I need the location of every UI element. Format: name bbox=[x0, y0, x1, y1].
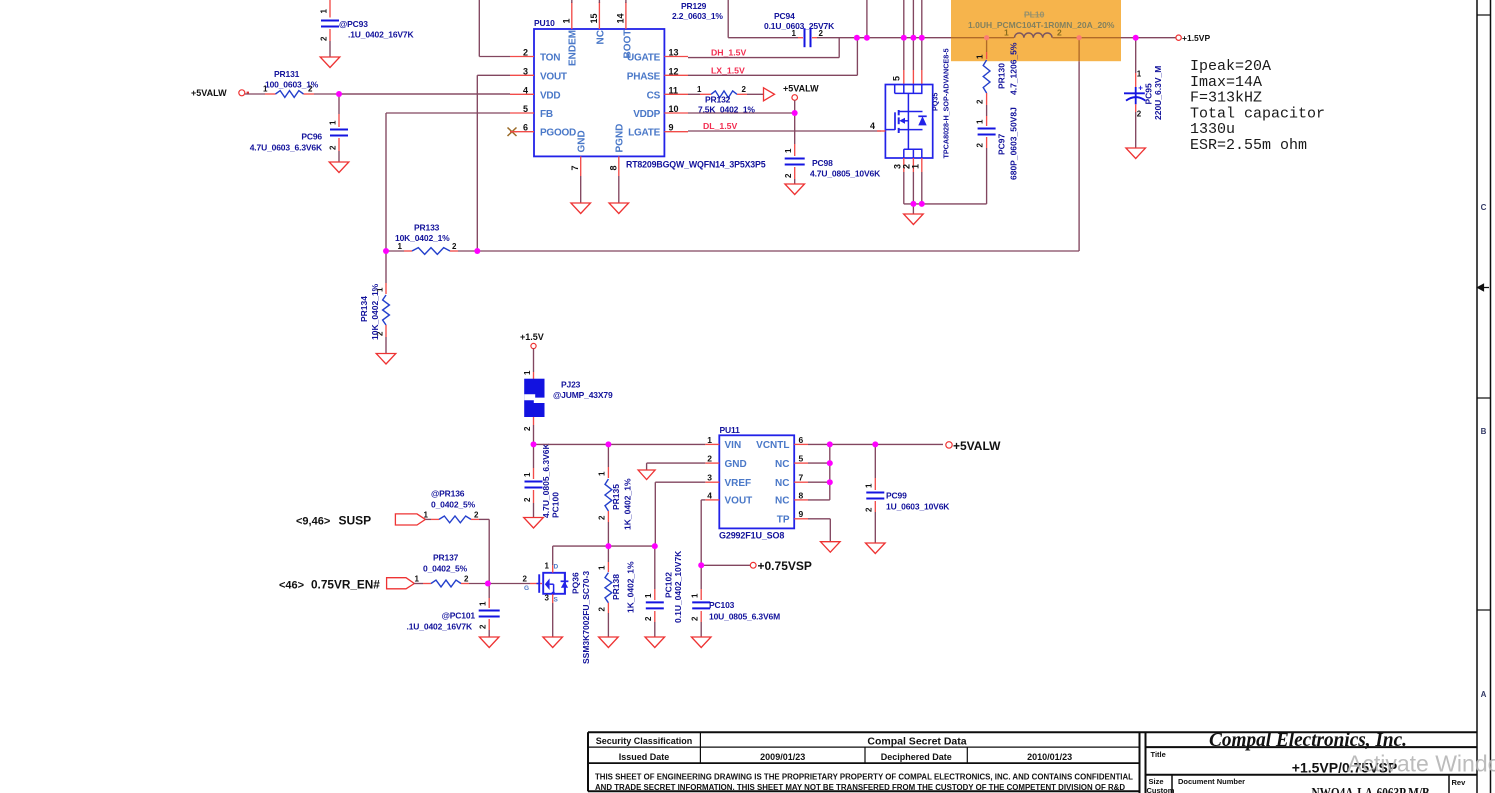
svg-text:2: 2 bbox=[452, 242, 457, 251]
svg-text:PR129: PR129 bbox=[681, 1, 707, 11]
svg-text:PC96: PC96 bbox=[301, 132, 322, 142]
svg-text:GND: GND bbox=[725, 459, 747, 470]
svg-text:1: 1 bbox=[561, 18, 571, 23]
svg-text:PR134: PR134 bbox=[359, 296, 369, 322]
svg-text:2010/01/23: 2010/01/23 bbox=[1027, 752, 1072, 762]
svg-text:0.1U_0603_25V7K: 0.1U_0603_25V7K bbox=[764, 21, 835, 31]
svg-text:DH_1.5V: DH_1.5V bbox=[711, 48, 746, 58]
svg-text:TPCA8028-H_SOP-ADVANCE8-5: TPCA8028-H_SOP-ADVANCE8-5 bbox=[942, 48, 951, 158]
svg-text:2: 2 bbox=[598, 607, 607, 612]
svg-text:THIS SHEET OF ENGINEERING DRAW: THIS SHEET OF ENGINEERING DRAWING IS THE… bbox=[595, 772, 1133, 781]
svg-text:0_0402_5%: 0_0402_5% bbox=[423, 564, 468, 574]
svg-text:+5VALW: +5VALW bbox=[191, 88, 227, 98]
svg-text:VREF: VREF bbox=[725, 478, 752, 489]
svg-text:680P_0603_50V8J: 680P_0603_50V8J bbox=[1009, 107, 1019, 180]
svg-text:4: 4 bbox=[870, 121, 875, 131]
svg-text:+5VALW: +5VALW bbox=[953, 439, 1001, 453]
svg-text:2: 2 bbox=[474, 511, 479, 520]
svg-text:NC: NC bbox=[775, 459, 789, 470]
svg-text:Deciphered Date: Deciphered Date bbox=[881, 752, 952, 762]
svg-text:VDD: VDD bbox=[540, 90, 560, 101]
svg-text:2: 2 bbox=[976, 143, 985, 148]
svg-text:LGATE: LGATE bbox=[628, 128, 660, 139]
svg-text:PR138: PR138 bbox=[611, 574, 621, 600]
svg-text:7: 7 bbox=[570, 165, 580, 170]
svg-text:1: 1 bbox=[644, 593, 653, 598]
svg-text:G: G bbox=[524, 585, 529, 592]
svg-text:1: 1 bbox=[1004, 28, 1009, 38]
svg-text:1: 1 bbox=[784, 148, 793, 153]
svg-text:Security Classification: Security Classification bbox=[596, 736, 693, 746]
svg-text:1: 1 bbox=[598, 471, 607, 476]
svg-text:DL_1.5V: DL_1.5V bbox=[703, 121, 737, 131]
svg-text:LX_1.5V: LX_1.5V bbox=[711, 65, 745, 75]
svg-text:7: 7 bbox=[799, 473, 804, 483]
svg-text:2: 2 bbox=[320, 36, 329, 41]
svg-text:10: 10 bbox=[669, 104, 679, 114]
svg-text:PC103: PC103 bbox=[709, 600, 735, 610]
svg-text:RT8209BGQW_WQFN14_3P5X3P5: RT8209BGQW_WQFN14_3P5X3P5 bbox=[626, 160, 766, 170]
svg-text:Compal Secret Data: Compal Secret Data bbox=[867, 735, 966, 747]
svg-text:PGND: PGND bbox=[615, 124, 626, 153]
svg-text:1: 1 bbox=[976, 119, 985, 124]
svg-text:.1U_0402_16V7K: .1U_0402_16V7K bbox=[348, 30, 414, 40]
svg-text:14: 14 bbox=[615, 13, 625, 23]
svg-text:+1.5V: +1.5V bbox=[520, 332, 544, 342]
svg-text:PC99: PC99 bbox=[886, 491, 907, 501]
svg-text:C: C bbox=[1481, 203, 1487, 212]
svg-text:1: 1 bbox=[320, 9, 329, 14]
svg-text:PR137: PR137 bbox=[433, 553, 459, 563]
svg-text:8: 8 bbox=[799, 490, 804, 500]
svg-text:PQ35: PQ35 bbox=[931, 93, 940, 111]
svg-text:2: 2 bbox=[976, 99, 985, 104]
svg-text:PQ36: PQ36 bbox=[571, 572, 581, 594]
svg-text:PC100: PC100 bbox=[551, 492, 561, 518]
svg-text:Total capacitor: Total capacitor bbox=[1190, 105, 1325, 122]
svg-text:1: 1 bbox=[523, 370, 532, 375]
svg-text:6: 6 bbox=[523, 123, 528, 133]
svg-text:B: B bbox=[1481, 427, 1487, 436]
svg-text:NC: NC bbox=[775, 496, 789, 507]
svg-text:PU10: PU10 bbox=[534, 18, 555, 28]
svg-text:1: 1 bbox=[523, 472, 532, 477]
svg-text:1: 1 bbox=[424, 511, 429, 520]
svg-text:2009/01/23: 2009/01/23 bbox=[760, 752, 805, 762]
svg-text:VCNTL: VCNTL bbox=[756, 440, 789, 451]
svg-text:1: 1 bbox=[329, 120, 338, 125]
svg-text:1: 1 bbox=[792, 29, 797, 38]
svg-text:@JUMP_43X79: @JUMP_43X79 bbox=[553, 390, 613, 400]
svg-text:4.7U_0805_6.3V6K: 4.7U_0805_6.3V6K bbox=[541, 442, 551, 518]
svg-text:3: 3 bbox=[707, 473, 712, 483]
svg-text:PR132: PR132 bbox=[705, 95, 731, 105]
svg-text:SUSP: SUSP bbox=[339, 514, 372, 528]
svg-text:1U_0603_10V6K: 1U_0603_10V6K bbox=[886, 502, 950, 512]
svg-text:1: 1 bbox=[598, 565, 607, 570]
svg-text:PGOOD: PGOOD bbox=[540, 128, 576, 139]
svg-text:2: 2 bbox=[742, 85, 747, 94]
svg-text:12: 12 bbox=[669, 66, 679, 76]
svg-text:220U_6.3V_M: 220U_6.3V_M bbox=[1153, 66, 1163, 120]
svg-text:ENDEM: ENDEM bbox=[568, 30, 579, 66]
svg-text:+5VALW: +5VALW bbox=[783, 84, 819, 94]
svg-text:1K_0402_1%: 1K_0402_1% bbox=[626, 561, 636, 613]
svg-text:VIN: VIN bbox=[725, 440, 742, 451]
svg-text:5: 5 bbox=[523, 104, 528, 114]
svg-text:BOOT: BOOT bbox=[623, 30, 634, 59]
svg-text:4.7U_0805_10V6K: 4.7U_0805_10V6K bbox=[810, 169, 881, 179]
svg-text:Issued Date: Issued Date bbox=[619, 752, 670, 762]
svg-text:PC94: PC94 bbox=[774, 11, 795, 21]
svg-text:2: 2 bbox=[691, 616, 700, 621]
svg-text:5: 5 bbox=[892, 76, 902, 81]
svg-text:1: 1 bbox=[545, 562, 550, 571]
svg-text:PC102: PC102 bbox=[664, 572, 674, 598]
svg-text:Imax=14A: Imax=14A bbox=[1190, 74, 1262, 91]
svg-text:6: 6 bbox=[799, 435, 804, 445]
svg-text:VOUT: VOUT bbox=[540, 71, 567, 82]
svg-text:1330u: 1330u bbox=[1190, 121, 1235, 138]
svg-text:G2992F1U_SO8: G2992F1U_SO8 bbox=[719, 531, 784, 541]
svg-text:F=313kHZ: F=313kHZ bbox=[1190, 90, 1262, 107]
svg-text:1: 1 bbox=[911, 164, 921, 169]
svg-text:2: 2 bbox=[329, 145, 338, 150]
svg-text:<46>: <46> bbox=[279, 580, 304, 592]
svg-text:VDDP: VDDP bbox=[633, 109, 660, 120]
svg-text:1.0UH_PCMC104T-1R0MN_20A_20%: 1.0UH_PCMC104T-1R0MN_20A_20% bbox=[968, 20, 1115, 30]
svg-text:2: 2 bbox=[819, 29, 824, 38]
svg-text:2: 2 bbox=[1137, 110, 1142, 119]
svg-text:13: 13 bbox=[669, 48, 679, 58]
svg-text:9: 9 bbox=[799, 509, 804, 519]
svg-text:9: 9 bbox=[669, 123, 674, 133]
svg-text:VOUT: VOUT bbox=[725, 496, 753, 507]
svg-text:10K_0402_1%: 10K_0402_1% bbox=[370, 283, 380, 340]
svg-text:2: 2 bbox=[479, 624, 488, 629]
svg-text:TP: TP bbox=[777, 515, 790, 526]
svg-text:AND TRADE SECRET INFORMATION.: AND TRADE SECRET INFORMATION. THIS SHEET… bbox=[595, 783, 1125, 792]
svg-text:2: 2 bbox=[523, 575, 528, 584]
svg-text:Compal Electronics, Inc.: Compal Electronics, Inc. bbox=[1209, 729, 1407, 751]
svg-text:1: 1 bbox=[697, 85, 702, 94]
svg-text:2.2_0603_1%: 2.2_0603_1% bbox=[672, 11, 723, 21]
svg-text:2: 2 bbox=[598, 515, 607, 520]
svg-text:CS: CS bbox=[647, 90, 661, 101]
svg-text:10K_0402_1%: 10K_0402_1% bbox=[395, 233, 450, 243]
svg-text:2: 2 bbox=[865, 507, 874, 512]
svg-text:@PC93: @PC93 bbox=[339, 19, 368, 29]
svg-text:PL10: PL10 bbox=[1024, 10, 1045, 20]
svg-text:10U_0805_6.3V6M: 10U_0805_6.3V6M bbox=[709, 612, 780, 622]
svg-text:2: 2 bbox=[1057, 28, 1062, 38]
svg-text:PR133: PR133 bbox=[414, 223, 440, 233]
svg-text:@PC101: @PC101 bbox=[442, 611, 476, 621]
svg-text:PC98: PC98 bbox=[812, 158, 833, 168]
svg-text:2: 2 bbox=[523, 497, 532, 502]
svg-text:D: D bbox=[554, 564, 559, 571]
svg-text:PU11: PU11 bbox=[720, 425, 741, 435]
svg-text:1: 1 bbox=[691, 593, 700, 598]
svg-text:2: 2 bbox=[523, 426, 532, 431]
svg-text:Rev: Rev bbox=[1452, 778, 1467, 787]
svg-text:Custom: Custom bbox=[1147, 786, 1175, 793]
svg-text:2: 2 bbox=[523, 48, 528, 58]
svg-text:+0.75VSP: +0.75VSP bbox=[758, 559, 812, 573]
svg-text:1: 1 bbox=[398, 242, 403, 251]
svg-text:4: 4 bbox=[523, 85, 528, 95]
svg-text:0_0402_5%: 0_0402_5% bbox=[431, 500, 476, 510]
svg-text:1: 1 bbox=[707, 435, 712, 445]
svg-text:PJ23: PJ23 bbox=[561, 380, 581, 390]
svg-text:<9,46>: <9,46> bbox=[296, 516, 330, 528]
svg-text:SSM3K7002FU_SC70-3: SSM3K7002FU_SC70-3 bbox=[581, 571, 591, 664]
svg-text:PR131: PR131 bbox=[274, 69, 300, 79]
svg-text:+1.5VP: +1.5VP bbox=[1182, 33, 1210, 43]
svg-text:4.7U_0603_6.3V6K: 4.7U_0603_6.3V6K bbox=[250, 143, 323, 153]
svg-text:2: 2 bbox=[464, 575, 469, 584]
svg-text:@PR136: @PR136 bbox=[431, 489, 465, 499]
svg-text:5: 5 bbox=[799, 454, 804, 464]
svg-text:.1U_0402_16V7K: .1U_0402_16V7K bbox=[407, 622, 473, 632]
svg-text:4.7_1206_5%: 4.7_1206_5% bbox=[1009, 42, 1019, 95]
svg-text:2: 2 bbox=[644, 616, 653, 621]
svg-text:PR135: PR135 bbox=[611, 484, 621, 510]
svg-text:8: 8 bbox=[608, 165, 618, 170]
svg-text:FB: FB bbox=[540, 109, 553, 120]
svg-text:PR130: PR130 bbox=[997, 63, 1007, 89]
svg-text:PHASE: PHASE bbox=[627, 71, 661, 82]
svg-text:2: 2 bbox=[784, 173, 793, 178]
svg-text:3: 3 bbox=[523, 66, 528, 76]
svg-text:Size: Size bbox=[1149, 777, 1164, 786]
svg-text:1: 1 bbox=[479, 601, 488, 606]
svg-text:PC97: PC97 bbox=[997, 133, 1007, 155]
svg-text:0.75VR_EN#: 0.75VR_EN# bbox=[311, 578, 380, 592]
svg-text:TON: TON bbox=[540, 53, 560, 64]
svg-text:A: A bbox=[1481, 690, 1487, 699]
svg-text:3: 3 bbox=[545, 594, 550, 603]
svg-text:1: 1 bbox=[976, 54, 985, 59]
svg-text:1: 1 bbox=[1137, 70, 1142, 79]
svg-text:11: 11 bbox=[669, 85, 679, 95]
svg-text:1: 1 bbox=[415, 575, 420, 584]
svg-text:0.1U_0402_10V7K: 0.1U_0402_10V7K bbox=[673, 550, 683, 623]
svg-text:Activate Windo: Activate Windo bbox=[1347, 751, 1495, 777]
svg-text:Title: Title bbox=[1151, 750, 1166, 759]
svg-text:S: S bbox=[554, 597, 559, 604]
svg-text:1: 1 bbox=[865, 483, 874, 488]
svg-text:NWQ4A-LA-6063P M/B: NWQ4A-LA-6063P M/B bbox=[1312, 786, 1430, 793]
svg-text:NC: NC bbox=[596, 30, 607, 44]
svg-text:15: 15 bbox=[589, 13, 599, 23]
svg-text:ESR=2.55m ohm: ESR=2.55m ohm bbox=[1190, 137, 1307, 154]
svg-text:Ipeak=20A: Ipeak=20A bbox=[1190, 58, 1271, 75]
svg-text:Document Number: Document Number bbox=[1178, 777, 1245, 786]
svg-text:1K_0402_1%: 1K_0402_1% bbox=[623, 478, 633, 530]
svg-text:GND: GND bbox=[577, 130, 588, 152]
svg-text:4: 4 bbox=[707, 490, 712, 500]
svg-text:2: 2 bbox=[707, 454, 712, 464]
svg-text:NC: NC bbox=[775, 478, 789, 489]
svg-text:100_0603_1%: 100_0603_1% bbox=[265, 80, 319, 90]
